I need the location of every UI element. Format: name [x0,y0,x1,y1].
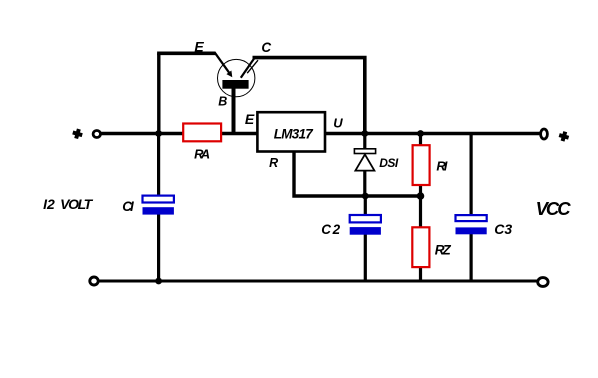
junction node adj/R1/RZ [417,192,425,200]
output + mark [558,130,570,142]
wire collector top and down to output rail [253,58,365,134]
svg-text:DSI: DSI [379,156,399,170]
svg-text:LM317: LM317 [274,127,314,142]
svg-text:RA: RA [194,147,210,162]
resistor RA [183,124,221,142]
transistor Q1 base bar [222,80,248,89]
capacitor C1 wires [157,134,160,197]
junction node adj/diode [362,193,369,200]
output terminal [541,129,548,139]
junction node output/R1 [417,130,424,137]
svg-text:B: B [218,95,227,109]
resistor RZ [412,227,429,267]
junction node output/diode [361,130,368,137]
svg-text:I2: I2 [43,196,55,212]
wire emitter branch vertical [157,53,160,133]
wire adjust pin [294,152,421,197]
wire emitter diagonal [215,52,231,74]
svg-text:CI: CI [122,199,134,214]
capacitor C3 bottom plate [456,227,487,234]
resistor R1 [413,145,430,185]
capacitor C2 top plate [350,215,381,222]
capacitor C1 bottom plate [143,207,174,214]
svg-text:VOLT: VOLT [60,196,94,212]
svg-text:U: U [333,115,343,130]
wire diode top [363,134,366,151]
diode DS1 triangle [355,154,374,170]
svg-text:C2: C2 [321,222,340,237]
input terminal [93,131,100,138]
wire collector diagonal second stroke [247,60,258,73]
capacitor C3 top plate [456,215,487,221]
bottom right terminal [538,278,548,287]
svg-text:C: C [261,40,271,55]
svg-text:R: R [269,156,278,170]
capacitor C2 wires [364,196,367,216]
wire base [232,87,236,134]
junction node bottom/C1 [155,278,162,285]
input + mark [71,128,83,140]
svg-text:VCC: VCC [536,198,572,219]
svg-text:RI: RI [436,159,447,174]
capacitor C1 top plate [143,196,174,203]
wire input rail [100,132,258,135]
svg-text:RZ: RZ [435,243,452,258]
svg-text:C3: C3 [494,221,512,237]
junction node input/C1 [155,130,162,137]
wire collector diagonal [241,58,254,77]
bottom left terminal [90,277,98,285]
resistor RZ wires [419,196,422,228]
wire bottom rail [99,280,537,283]
svg-text:E: E [245,111,255,127]
svg-text:E: E [194,39,204,55]
wire output rail [324,132,540,135]
IC U1 LM317 box [257,112,325,151]
wire diode bottom [363,170,366,196]
capacitor C2 bottom plate [350,227,381,235]
resistor R1 wires [419,134,422,147]
capacitor C3 wires [470,134,473,217]
diode DS1 cathode bar [354,149,375,154]
emitter arrowhead [226,71,232,78]
transistor Q1 circle [218,59,255,96]
wire emitter top horizontal [157,51,215,55]
